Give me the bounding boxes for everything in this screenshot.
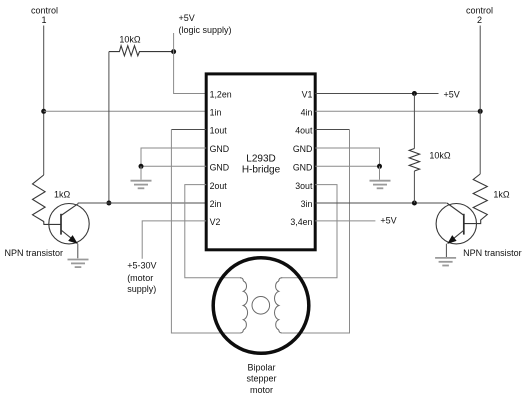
wire 4out down to motor coil bottom-right	[282, 130, 349, 334]
wire 1out from IC	[171, 129, 206, 131]
ground below Q1	[68, 259, 89, 261]
wire 3in	[315, 202, 447, 204]
transistor Q1 circle	[49, 204, 89, 244]
svg-text:3,4en: 3,4en	[290, 217, 312, 227]
svg-text:L293D: L293D	[246, 154, 275, 165]
svg-text:NPN transistor: NPN transistor	[5, 248, 64, 258]
wire GND upper-left	[141, 148, 206, 166]
transistor Q1 emitter arrow	[68, 235, 78, 244]
svg-text:4in: 4in	[301, 108, 313, 118]
wire 2in	[78, 202, 206, 204]
svg-text:control: control	[31, 6, 58, 16]
wire V2 to motor supply	[142, 221, 206, 259]
svg-text:control: control	[466, 6, 493, 16]
motor M1 body circle	[213, 258, 309, 354]
wire 10k-left vertical to 2in	[108, 52, 110, 203]
junction dot GND right	[377, 164, 382, 169]
svg-text:V2: V2	[210, 217, 221, 227]
svg-text:NPN transistor: NPN transistor	[463, 248, 522, 258]
junction dot GND left	[139, 164, 144, 169]
transistor Q2 circle	[436, 204, 476, 244]
svg-text:motor: motor	[250, 385, 273, 395]
transistor Q1 base bar	[60, 214, 62, 235]
motor right coil	[279, 278, 282, 281]
transistor Q1 collector	[61, 204, 78, 216]
wire V1 dot down to 10k	[413, 94, 415, 149]
svg-text:H-bridge: H-bridge	[242, 165, 281, 176]
svg-text:supply): supply)	[127, 284, 156, 294]
motor rotor circle	[252, 297, 270, 315]
transistor Q2 emitter	[448, 230, 464, 243]
svg-text:+5-30V: +5-30V	[127, 261, 156, 271]
svg-text:1,2en: 1,2en	[210, 90, 232, 100]
svg-text:1out: 1out	[210, 126, 228, 136]
svg-text:GND: GND	[293, 144, 313, 154]
ground right of IC	[370, 180, 391, 182]
ground left of IC	[131, 180, 152, 182]
svg-text:+5V: +5V	[179, 13, 195, 23]
svg-text:GND: GND	[293, 163, 313, 173]
resistor R2 1kohm left	[33, 175, 61, 224]
svg-text:V1: V1	[302, 90, 313, 100]
wire GND lower-right	[315, 165, 379, 167]
svg-text:10kΩ: 10kΩ	[119, 35, 141, 45]
wire GND-left to ground symbol	[140, 166, 142, 180]
junction dot 10k/+5V	[171, 49, 176, 54]
svg-text:2out: 2out	[210, 181, 228, 191]
transistor Q2 collector	[447, 203, 464, 216]
svg-text:(logic supply): (logic supply)	[179, 25, 232, 35]
wire GND lower-left	[141, 165, 206, 167]
resistor R1 10kohm horizontal	[109, 46, 174, 56]
svg-text:1: 1	[41, 15, 46, 25]
svg-text:stepper: stepper	[246, 374, 276, 384]
wire 4out from IC	[315, 129, 349, 131]
svg-text:(motor: (motor	[127, 273, 153, 283]
svg-text:GND: GND	[210, 144, 230, 154]
svg-text:4out: 4out	[295, 126, 313, 136]
motor left coil	[240, 278, 243, 281]
wire control-2 vertical	[479, 26, 481, 175]
wire Q2 emitter to ground	[445, 244, 447, 258]
wire 3out to motor coil top-right	[281, 185, 337, 278]
ground below Q2	[435, 257, 456, 259]
svg-text:2: 2	[477, 15, 482, 25]
svg-text:3out: 3out	[295, 181, 313, 191]
junction dot 4in/control2	[478, 109, 483, 114]
svg-text:Bipolar: Bipolar	[247, 362, 275, 372]
wire 10k-right to 3in	[413, 171, 415, 203]
svg-text:GND: GND	[210, 163, 230, 173]
wire 1out down to motor coil bottom-left	[171, 130, 240, 334]
wire GND-right to ground symbol	[379, 166, 381, 180]
svg-text:3in: 3in	[301, 199, 313, 209]
junction dot 10k/2in	[106, 201, 111, 206]
svg-text:1kΩ: 1kΩ	[493, 190, 510, 200]
wire GND upper-right	[315, 148, 379, 166]
wire 2out to motor coil top-left	[185, 185, 241, 278]
resistor R4 1kohm right	[464, 174, 487, 224]
resistor R3 10kohm right	[409, 149, 419, 172]
svg-text:10kΩ: 10kΩ	[429, 151, 451, 161]
svg-text:+5V: +5V	[444, 90, 460, 100]
svg-text:+5V: +5V	[380, 216, 396, 226]
svg-text:1kΩ: 1kΩ	[54, 190, 71, 200]
transistor Q2 emitter arrow	[447, 235, 456, 244]
wire control-1 vertical	[43, 26, 45, 176]
transistor Q1 emitter	[61, 230, 78, 243]
wire 4in	[315, 110, 480, 112]
junction dot V1/10k	[412, 91, 417, 96]
svg-text:1in: 1in	[210, 108, 222, 118]
wire +5V to 1,2en	[174, 33, 207, 94]
wire Q1 emitter to ground	[77, 244, 79, 259]
op-amp U1 L293D body	[206, 74, 315, 250]
svg-text:2in: 2in	[210, 199, 222, 209]
wire 1in	[44, 110, 207, 112]
wire V1 to +5V	[315, 93, 438, 95]
junction dot 3in/10k	[412, 201, 417, 206]
junction dot control1/1in	[41, 109, 46, 114]
wire 3,4en to +5V	[315, 220, 375, 222]
transistor Q2 base bar	[463, 214, 465, 235]
